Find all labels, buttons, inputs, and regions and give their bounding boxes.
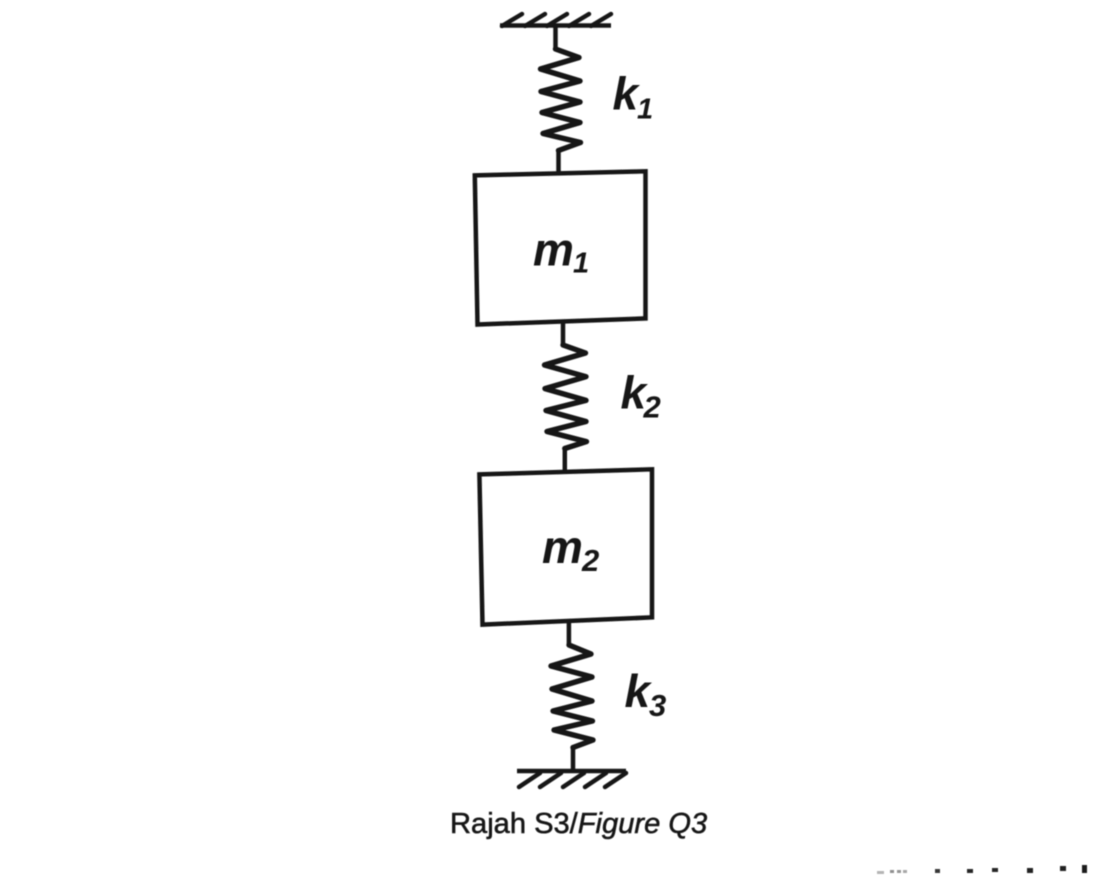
svg-text:m: m (542, 521, 583, 573)
wire spring k3 to ground (571, 746, 576, 771)
svg-text:1: 1 (573, 248, 589, 280)
wire mass m2 to spring k3 (567, 620, 572, 646)
wire spring k2 to mass m2 (563, 447, 568, 474)
svg-text:1: 1 (637, 94, 653, 126)
svg-text:2: 2 (581, 543, 599, 578)
wire spring k1 to mass m1 (556, 149, 561, 175)
wire ceiling to spring k1 (553, 26, 558, 50)
mass m2 box (479, 469, 652, 624)
cut-off text fragments bottom right (877, 865, 1087, 874)
mass m1 box (475, 171, 646, 324)
spring k2 (545, 345, 587, 449)
spring k3 (551, 645, 593, 748)
svg-text:Rajah S3/Figure Q3: Rajah S3/Figure Q3 (450, 808, 707, 840)
ground hatch marks (519, 773, 626, 787)
svg-text:3: 3 (649, 688, 666, 723)
spring k1 (541, 49, 581, 151)
fixed ceiling line (500, 23, 611, 28)
ground line (517, 769, 626, 774)
wire mass m1 to spring k2 (561, 322, 566, 346)
svg-text:2: 2 (643, 390, 661, 425)
svg-text:m: m (533, 224, 574, 276)
ceiling hatch marks (502, 14, 611, 26)
